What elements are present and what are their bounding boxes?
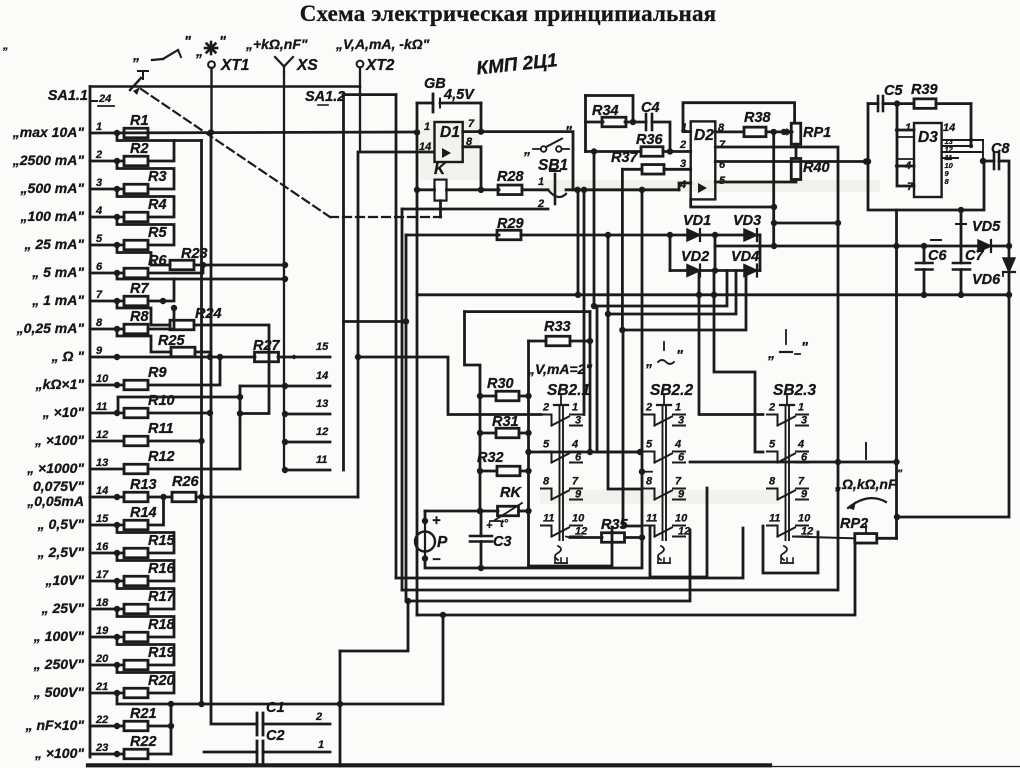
wire node6 sub-shelf bbox=[117, 273, 285, 279]
wire SA1.2 left riser x343 bbox=[342, 95, 345, 470]
svg-text:9: 9 bbox=[678, 489, 685, 501]
svg-text:R30: R30 bbox=[487, 376, 514, 392]
svg-text:„ 1 mA": „ 1 mA" bbox=[31, 292, 84, 308]
wire staple node3 to R4 bbox=[117, 189, 174, 217]
svg-text:6: 6 bbox=[96, 261, 103, 273]
svg-text:R18: R18 bbox=[148, 617, 176, 633]
svg-text:C6: C6 bbox=[928, 248, 947, 264]
SB2.2 contacts 5-4-6 bbox=[644, 452, 655, 463]
wire row 17 bbox=[90, 580, 124, 583]
wire R9 up to row9 bbox=[148, 357, 220, 385]
wire row 22 bbox=[90, 725, 124, 728]
svg-text:R14: R14 bbox=[130, 505, 157, 521]
svg-text:": " bbox=[801, 340, 809, 356]
wire staple node4 to R5 bbox=[117, 217, 174, 245]
wire R24 to vertical x240 bbox=[194, 325, 269, 414]
resistor R34 bbox=[586, 96, 634, 123]
svg-text:4: 4 bbox=[571, 439, 578, 451]
svg-text:8: 8 bbox=[769, 476, 776, 488]
svg-text:„ ×1000": „ ×1000" bbox=[26, 460, 84, 476]
wire XS drop (SA1.2 common) bbox=[283, 72, 285, 470]
IC D2 bbox=[691, 121, 716, 199]
wire staple node18 to next bbox=[117, 609, 174, 637]
button SB1 bbox=[541, 146, 547, 152]
resistor R27 bbox=[255, 352, 279, 362]
svg-text:XT2: XT2 bbox=[365, 57, 395, 74]
svg-text:19: 19 bbox=[96, 625, 109, 637]
svg-text:R20: R20 bbox=[148, 673, 175, 689]
wire SB2.3 pin12 to RP2 bbox=[793, 537, 855, 539]
svg-text:R16: R16 bbox=[148, 561, 176, 577]
wire staple node15 to next bbox=[117, 525, 174, 553]
wire row 7 bbox=[90, 300, 124, 303]
svg-text:VD3: VD3 bbox=[733, 213, 761, 229]
svg-text:R21: R21 bbox=[130, 706, 157, 722]
wire C2 to contact 1 bbox=[263, 751, 330, 754]
svg-text:12: 12 bbox=[678, 526, 690, 538]
wire x584 SB1 node to SB2.1 pin1 bbox=[583, 190, 586, 415]
svg-text:„ ×100": „ ×100" bbox=[34, 432, 84, 448]
capacitor C3 bbox=[480, 511, 483, 536]
wire R25 to row9 bbox=[195, 352, 210, 357]
wire row 8 bbox=[90, 328, 124, 331]
svg-text:14: 14 bbox=[419, 141, 431, 153]
svg-text:+: + bbox=[432, 513, 441, 529]
wire VD5 line bbox=[774, 245, 1009, 248]
svg-text:2: 2 bbox=[95, 149, 102, 161]
svg-text:R27: R27 bbox=[253, 338, 281, 354]
diode VD5 bbox=[978, 240, 991, 252]
svg-text:R22: R22 bbox=[130, 734, 157, 750]
svg-text:6: 6 bbox=[575, 452, 582, 464]
thermistor RK bbox=[480, 510, 498, 513]
wire row 21 bbox=[90, 692, 124, 695]
handwritten annotation KMP2U1 bbox=[475, 50, 558, 79]
svg-text:R34: R34 bbox=[592, 103, 619, 119]
resistor R33 bbox=[529, 340, 547, 343]
svg-text:„: „ bbox=[767, 346, 775, 362]
wire rung y223 bbox=[774, 222, 838, 225]
star mark bbox=[205, 47, 217, 50]
wire R7 loop up bbox=[148, 279, 174, 301]
SB1 contact arm bbox=[548, 190, 566, 197]
resistor R15 bbox=[124, 548, 148, 558]
svg-text:„Ω,kΩ,nF: „Ω,kΩ,nF bbox=[834, 476, 897, 492]
svg-text:22: 22 bbox=[95, 714, 108, 726]
svg-text:24: 24 bbox=[98, 93, 111, 105]
resistor R25 bbox=[171, 347, 195, 357]
bridge descenders bbox=[698, 271, 701, 295]
wire SB1 contact2 line bbox=[402, 208, 548, 211]
wire nF bus y704 bbox=[171, 703, 443, 706]
svg-text:XS: XS bbox=[296, 57, 318, 74]
svg-text:„+kΩ,nF": „+kΩ,nF" bbox=[245, 36, 308, 52]
wire D2 pin8 R38 bbox=[715, 130, 744, 133]
svg-text:20: 20 bbox=[95, 653, 109, 665]
wire R21 right bbox=[148, 725, 171, 728]
terminal XT2 bbox=[357, 61, 364, 68]
resistor R36 bbox=[586, 150, 642, 153]
wire C4 to pin2 node bbox=[652, 122, 670, 152]
svg-text:R29: R29 bbox=[497, 216, 524, 232]
resistor R17 bbox=[124, 604, 148, 614]
svg-text:14: 14 bbox=[96, 485, 108, 497]
svg-text:2: 2 bbox=[315, 711, 322, 723]
resistor R26 bbox=[172, 492, 196, 502]
svg-text:R26: R26 bbox=[172, 474, 200, 490]
svg-text:1: 1 bbox=[538, 176, 544, 188]
svg-text:3: 3 bbox=[575, 415, 581, 427]
resistor R38 bbox=[744, 127, 766, 136]
svg-text:R9: R9 bbox=[148, 365, 167, 381]
svg-text:VD5: VD5 bbox=[972, 219, 1001, 235]
wire row 2 bbox=[90, 160, 124, 163]
svg-text:RP2: RP2 bbox=[840, 516, 868, 532]
wire R27 to SA1.2 contact 15 bbox=[278, 356, 330, 359]
SB2.2 contacts 11-10-12 bbox=[644, 526, 655, 537]
svg-text:7: 7 bbox=[468, 118, 475, 130]
svg-text:21: 21 bbox=[95, 681, 108, 693]
wire D2 below wrap bbox=[691, 199, 774, 207]
svg-text:8: 8 bbox=[543, 476, 550, 488]
svg-text:11: 11 bbox=[769, 513, 780, 525]
wire R37 node drop bbox=[621, 169, 624, 330]
resistor R6 bbox=[124, 268, 148, 278]
wire staple node5 to R23 bbox=[117, 245, 170, 265]
wire riser x443 to frame F4 bbox=[442, 615, 445, 704]
wire staple node16 to next bbox=[117, 553, 174, 581]
resistor R30 bbox=[480, 395, 496, 398]
wire D1 pin7 bbox=[463, 132, 573, 190]
wire x528 island bus bbox=[527, 341, 530, 566]
wire Ohm node to SB2.1 rowA bbox=[358, 357, 541, 415]
capacitor C6 bbox=[923, 246, 926, 263]
resistor R28 bbox=[498, 185, 522, 195]
diode VD3 bbox=[744, 229, 757, 241]
resistor R19 bbox=[124, 660, 148, 670]
svg-text:": " bbox=[676, 348, 684, 364]
svg-text:12: 12 bbox=[801, 526, 813, 538]
SB2.1 pin12 to R35 bbox=[566, 537, 570, 538]
svg-text:2: 2 bbox=[542, 402, 549, 414]
svg-text:R8: R8 bbox=[130, 309, 149, 325]
svg-text:R3: R3 bbox=[148, 169, 167, 185]
wire K bottom to dashed link bbox=[439, 201, 442, 217]
wire D1 pin8 bbox=[463, 147, 481, 190]
wire node11 L to vertical x240 bbox=[118, 397, 240, 413]
resistor R22 bbox=[124, 749, 148, 759]
resistor R13 bbox=[124, 492, 148, 502]
svg-text:SA1.1: SA1.1 bbox=[48, 88, 88, 104]
svg-text:R1: R1 bbox=[130, 113, 149, 129]
svg-text:RP1: RP1 bbox=[803, 125, 831, 141]
svg-text:R15: R15 bbox=[148, 533, 176, 549]
scan border bottom edge bbox=[88, 763, 770, 767]
svg-text:C7: C7 bbox=[965, 248, 984, 264]
resistor R9 bbox=[124, 380, 148, 390]
svg-text:16: 16 bbox=[96, 541, 109, 553]
frame F2 bbox=[402, 589, 837, 592]
svg-text:D2: D2 bbox=[694, 127, 714, 144]
frame F4 bbox=[417, 543, 855, 615]
svg-text:R32: R32 bbox=[477, 450, 504, 466]
wire riser x590 bbox=[589, 312, 592, 452]
svg-text:": " bbox=[565, 124, 573, 140]
svg-text:1: 1 bbox=[572, 402, 578, 414]
svg-text:K: K bbox=[434, 161, 447, 178]
wire y471 rung bbox=[642, 471, 652, 473]
wire row 3 bbox=[90, 188, 124, 191]
SB2.2 frame bbox=[650, 488, 707, 577]
wire R36 node drop bbox=[593, 152, 596, 307]
wire SB1 output bbox=[566, 188, 679, 191]
wire R40 bottom to pin5 bbox=[715, 180, 796, 183]
svg-text:„0,25 mA": „0,25 mA" bbox=[16, 320, 85, 336]
terminal XS bbox=[275, 57, 284, 67]
vertical B XT1 line down to C1 bbox=[211, 132, 257, 724]
svg-text:9: 9 bbox=[801, 489, 808, 501]
svg-text:C5: C5 bbox=[884, 83, 903, 99]
resistor R39 bbox=[914, 99, 936, 109]
svg-text:13: 13 bbox=[316, 398, 328, 410]
wire to D2 pin4 bbox=[679, 183, 691, 190]
svg-text:VD2: VD2 bbox=[681, 249, 709, 265]
resistor R4 bbox=[124, 212, 148, 222]
svg-text:R13: R13 bbox=[130, 477, 157, 493]
wire row 20 bbox=[90, 664, 124, 667]
SB2.1 frame bbox=[529, 527, 613, 566]
wire row 23 bbox=[90, 753, 124, 756]
svg-text:11: 11 bbox=[96, 401, 107, 413]
svg-text:R28: R28 bbox=[497, 169, 525, 185]
svg-text:C3: C3 bbox=[493, 534, 512, 550]
svg-text:„ 500V": „ 500V" bbox=[33, 684, 85, 700]
IC D3 bbox=[914, 123, 942, 197]
svg-text:−: − bbox=[432, 552, 441, 568]
svg-text:VD1: VD1 bbox=[683, 213, 711, 229]
svg-text:7: 7 bbox=[719, 139, 726, 151]
SB2.3 contacts 2-1-3 bbox=[767, 415, 778, 426]
svg-text:„100 mA": „100 mA" bbox=[20, 208, 85, 224]
wire y311 R33 feed bbox=[465, 310, 591, 313]
svg-text:„: „ bbox=[132, 48, 140, 64]
SA1.2 contact 14 bbox=[240, 385, 330, 388]
svg-text:1: 1 bbox=[905, 122, 911, 134]
svg-text:15: 15 bbox=[316, 341, 329, 353]
svg-text:„ ×10": „ ×10" bbox=[42, 404, 85, 420]
svg-text:R7: R7 bbox=[130, 281, 149, 297]
svg-text:„ ×100": „ ×100" bbox=[34, 745, 84, 761]
rail y294 bbox=[417, 293, 1009, 296]
descender to SB2.3 rowA bbox=[699, 295, 763, 415]
svg-text:5: 5 bbox=[96, 233, 103, 245]
wire D2 pin7 long bbox=[715, 147, 838, 590]
wire row14 R13 R26 chain to D1 pin14 bbox=[148, 496, 172, 499]
wire R12 up to SA1.2 contact 14 line bbox=[148, 386, 240, 469]
wire staple node2 to R3 bbox=[117, 161, 174, 189]
svg-text:14: 14 bbox=[316, 370, 328, 382]
svg-text:R39: R39 bbox=[911, 82, 938, 98]
wire R38 node drop x774 bbox=[772, 132, 775, 246]
wire bridge to pin2/3 node bbox=[715, 245, 774, 248]
svg-text:1: 1 bbox=[318, 739, 324, 751]
svg-text:R17: R17 bbox=[148, 589, 176, 605]
svg-text:3: 3 bbox=[96, 177, 102, 189]
svg-text:10: 10 bbox=[675, 513, 688, 525]
descender to SB2.3 rowB bbox=[714, 295, 763, 452]
svg-text:3: 3 bbox=[801, 415, 807, 427]
resistor R10 bbox=[124, 408, 148, 418]
svg-text:": " bbox=[219, 34, 227, 50]
svg-text:1: 1 bbox=[675, 402, 681, 414]
IC D1 bbox=[435, 122, 463, 162]
wire row 19 bbox=[90, 636, 124, 639]
svg-text:„ 2,5V": „ 2,5V" bbox=[37, 544, 85, 560]
svg-text:4: 4 bbox=[797, 439, 804, 451]
wire riser x171 R21 R22 bbox=[170, 704, 173, 754]
svg-text:4: 4 bbox=[679, 179, 686, 191]
svg-text:4,5V: 4,5V bbox=[443, 87, 475, 103]
svg-text:P: P bbox=[437, 534, 448, 551]
svg-text:VD6: VD6 bbox=[972, 272, 1001, 288]
svg-text:„: „ bbox=[2, 40, 9, 52]
svg-text:17: 17 bbox=[96, 569, 109, 581]
svg-text:„max 10A": „max 10A" bbox=[12, 124, 85, 140]
resistor R29 bbox=[406, 234, 499, 237]
svg-text:7: 7 bbox=[96, 289, 103, 301]
wire row1 to D1 pin1 bbox=[90, 132, 417, 133]
SB2.3 contacts 8-7-9 bbox=[767, 489, 778, 500]
SB2.2 contacts 8-7-9 bbox=[644, 489, 655, 500]
svg-text:R2: R2 bbox=[130, 141, 149, 157]
svg-text:5: 5 bbox=[646, 439, 653, 451]
wire R11 to vertical A bbox=[148, 440, 202, 443]
wire K to R28 bbox=[447, 188, 500, 191]
wire battery frame bbox=[416, 103, 419, 132]
SA1.2 contact 12 bbox=[285, 441, 330, 444]
svg-text:SA1.2: SA1.2 bbox=[305, 89, 345, 105]
svg-text:„V,A,mA, -kΩ": „V,A,mA, -kΩ" bbox=[335, 36, 430, 52]
wire row 9 (Ohm common) bbox=[90, 356, 255, 359]
svg-text:10: 10 bbox=[798, 513, 811, 525]
resistor R16 bbox=[124, 576, 148, 586]
svg-text:„ 25 mA": „ 25 mA" bbox=[23, 236, 84, 252]
svg-text:R19: R19 bbox=[148, 645, 175, 661]
wire SB2.2 pin12 drop bbox=[689, 530, 691, 537]
D3 left pins bbox=[897, 104, 914, 186]
svg-text:": " bbox=[184, 34, 192, 50]
wire row 6 bbox=[90, 272, 124, 275]
diode VD4 bbox=[744, 265, 757, 277]
SA1.2 contact 13 bbox=[285, 413, 330, 416]
svg-text:„: „ bbox=[645, 354, 653, 370]
wire R23 to XS bus bbox=[194, 264, 285, 267]
resistor R18 bbox=[124, 632, 148, 642]
SB2.1 contacts 8-7-9 bbox=[541, 489, 552, 500]
stray wire stub above RP2 bbox=[865, 443, 867, 459]
wire x464 drop bbox=[465, 312, 481, 511]
diode bridge VD1 bbox=[670, 234, 760, 237]
svg-text:7: 7 bbox=[798, 476, 805, 488]
resistor R32 bbox=[480, 470, 496, 473]
wire row 10 bbox=[90, 384, 124, 387]
svg-text:Схема электрическая принципиал: Схема электрическая принципиальная bbox=[300, 1, 717, 26]
wire staple node8 to R25 bbox=[117, 329, 171, 352]
svg-text:„V,mA=2": „V,mA=2" bbox=[527, 361, 592, 377]
resistor R11 bbox=[124, 436, 148, 446]
svg-text:VD4: VD4 bbox=[731, 249, 759, 265]
resistor R8 bbox=[124, 324, 148, 334]
svg-text:R10: R10 bbox=[148, 393, 175, 409]
wire D2 pin6 to D3 bbox=[715, 160, 866, 163]
resistor R35 bbox=[570, 536, 602, 539]
svg-text:": " bbox=[897, 468, 903, 480]
capacitor C4 bbox=[645, 114, 648, 130]
D3 right pins bbox=[942, 139, 983, 141]
svg-text:12: 12 bbox=[96, 429, 108, 441]
wire SB1 node drop to R35 riser bbox=[641, 190, 644, 452]
svg-text:2: 2 bbox=[645, 402, 652, 414]
wire frame jog x408 bbox=[340, 601, 408, 651]
svg-text:4: 4 bbox=[95, 205, 102, 217]
SB2.3 frame bbox=[763, 526, 818, 573]
svg-text:GB: GB bbox=[424, 76, 446, 92]
svg-text:R4: R4 bbox=[148, 197, 167, 213]
wire R8 loop up bbox=[148, 308, 174, 329]
svg-text:9: 9 bbox=[96, 345, 103, 357]
svg-text:18: 18 bbox=[96, 597, 109, 609]
wire R6 up to R23 line bbox=[148, 265, 203, 273]
svg-text:„2500 mA": „2500 mA" bbox=[12, 152, 85, 168]
wire row 13 bbox=[90, 468, 124, 471]
svg-text:„ 100V": „ 100V" bbox=[33, 628, 85, 644]
svg-text:„ 5 mA": „ 5 mA" bbox=[31, 264, 84, 280]
svg-text:13: 13 bbox=[96, 457, 108, 469]
mechanical link dashed bbox=[141, 89, 330, 217]
svg-text:0,075V": 0,075V" bbox=[33, 478, 84, 494]
wire node21 shelf to nF bus bbox=[117, 693, 171, 704]
diode VD6 (zener) bbox=[1003, 258, 1015, 272]
wire meter minus loop bbox=[425, 538, 642, 568]
svg-text:„ nF×10": „ nF×10" bbox=[25, 717, 85, 733]
svg-text:14: 14 bbox=[943, 122, 955, 134]
wire R35 riser bbox=[641, 452, 644, 538]
svg-text:R23: R23 bbox=[181, 246, 208, 262]
svg-text:11: 11 bbox=[646, 513, 657, 525]
svg-text:R31: R31 bbox=[492, 414, 519, 430]
frame F3 bbox=[406, 530, 690, 601]
wire row 5 bbox=[90, 244, 124, 247]
resistor R14 bbox=[124, 520, 148, 530]
wire row 4 bbox=[90, 216, 124, 219]
svg-text:1: 1 bbox=[424, 121, 430, 133]
svg-text:3: 3 bbox=[680, 158, 686, 170]
svg-text:1: 1 bbox=[96, 121, 102, 133]
wire staple node17 to next bbox=[117, 581, 174, 609]
svg-text:„ 0,5V": „ 0,5V" bbox=[37, 516, 85, 532]
SB2.1 contacts 2-1-3 bbox=[541, 415, 552, 426]
switch SA1.1 common bar bbox=[89, 87, 92, 758]
D3 frame bbox=[868, 104, 984, 210]
svg-text:5: 5 bbox=[769, 439, 776, 451]
svg-text:11: 11 bbox=[543, 513, 554, 525]
wire row 15 bbox=[90, 524, 124, 527]
svg-text:12: 12 bbox=[575, 526, 587, 538]
svg-text:1: 1 bbox=[798, 402, 804, 414]
wire R10 to vertical B bbox=[148, 412, 210, 415]
svg-text:7: 7 bbox=[572, 476, 579, 488]
resistor R7 bbox=[124, 296, 148, 306]
